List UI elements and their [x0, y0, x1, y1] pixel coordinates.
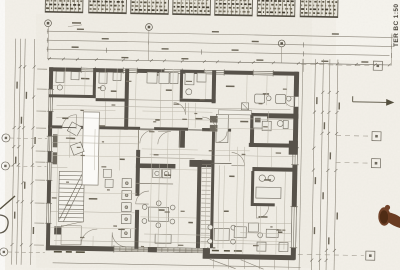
pencil stroke lower-left	[0, 196, 15, 209]
dimension number text smudges	[71, 28, 368, 62]
smudge row under bottom wall	[54, 251, 85, 253]
bath wall V x213	[212, 70, 217, 103]
furniture group	[53, 70, 292, 251]
bath wall V x180	[180, 70, 184, 99]
schedule table T5 (cut off at top)	[215, 0, 253, 16]
interior wall H1 seg d	[202, 128, 216, 131]
extra text smudges	[48, 78, 288, 250]
top dimension chain line L4 with ticks	[47, 57, 391, 66]
schedule table T3 (cut off at top)	[131, 0, 169, 14]
interior wall H2 chunk	[189, 160, 211, 167]
interior wall V x126	[124, 69, 129, 130]
interior wall H1 seg e	[216, 128, 231, 131]
left axis bubble 2	[9, 165, 46, 168]
entry door gap right wall	[294, 97, 299, 107]
interior detail thin lines	[50, 67, 294, 254]
kitchen counter thin left part	[218, 110, 251, 115]
entrance arrow	[353, 96, 394, 105]
window top 203-223	[204, 69, 224, 76]
window left y165-183	[46, 162, 53, 180]
large table rectangle	[82, 112, 99, 185]
left vertical dimension lines	[12, 39, 35, 265]
washer dryer boxes	[153, 169, 171, 178]
interior wall H y144	[249, 143, 297, 148]
right axis square bubble 3	[336, 161, 370, 164]
window left y92-114	[47, 89, 54, 111]
staircase	[54, 171, 84, 230]
leader note 2700	[72, 22, 81, 24]
closet under stair	[61, 225, 97, 245]
bottom leader diagonals	[210, 259, 264, 269]
inner dimension chains	[54, 105, 296, 244]
bottom dimension line	[53, 263, 301, 268]
interior wall H1 seg a	[48, 125, 62, 128]
door leaves	[62, 92, 295, 131]
right vertical dimension lines	[311, 59, 337, 270]
schedule table T4 (cut off at top)	[173, 0, 211, 15]
extra furniture bottom right	[248, 223, 278, 238]
thin line y158.6	[136, 157, 194, 158]
interior wall V7 x213	[210, 131, 215, 248]
bottom wall step connector	[203, 248, 210, 259]
interior wall V x182	[179, 131, 185, 148]
interior wall V5 lower	[134, 210, 139, 249]
radiators on left wall	[52, 134, 57, 164]
schedule table T1 (cut off at top)	[45, 0, 83, 13]
window top 122-136	[123, 67, 137, 74]
right axis square bubble 2	[336, 134, 370, 137]
wardrobe row upper middle room	[147, 72, 178, 84]
interior wall H1 seg b	[76, 126, 140, 130]
kitchen wall H3	[251, 113, 298, 119]
top dimension line L2	[47, 40, 393, 46]
bath wall H y100	[180, 99, 216, 103]
schedule table T6 (cut off at top)	[257, 0, 295, 17]
interior wall H y98 left	[49, 94, 96, 98]
survey point circle C	[278, 40, 285, 47]
right wall pier chunk	[289, 141, 298, 155]
dark chunk near left wall bottom	[54, 226, 61, 234]
interior wall V x93	[93, 68, 97, 98]
window right y205-246	[290, 207, 298, 248]
bottom exterior wall right section	[203, 254, 295, 261]
interior wall V8	[250, 113, 255, 147]
terrace glazing bottom-left	[114, 245, 208, 254]
interior wall V6 x200	[196, 160, 202, 248]
tilted armchairs	[67, 122, 85, 156]
thin wall line V5 top	[137, 130, 139, 150]
interior wall H y101	[96, 98, 128, 102]
interior wall V5 upper	[135, 150, 140, 196]
left exterior wall	[46, 67, 53, 250]
window top 163-181	[164, 68, 182, 75]
window right y146-163	[291, 148, 299, 165]
bath right bottom wall	[252, 203, 275, 206]
ticks on top dimension lines	[48, 29, 392, 58]
pier in bottom glazing	[148, 247, 157, 252]
room label smudges	[60, 72, 285, 233]
pencil hook mark	[0, 215, 8, 233]
misc faint interior lines 2	[50, 67, 294, 254]
bath right wall V	[251, 171, 255, 206]
extension connectors above plan	[48, 26, 392, 73]
interior wall H2-left	[136, 163, 176, 168]
smudges above bottom-right wall	[212, 250, 242, 252]
left axis bubble 1	[10, 137, 47, 140]
dimension line x301.5	[299, 59, 303, 270]
svg-text:TER BC 1:50: TER BC 1:50	[393, 4, 400, 47]
shelf line y184.5	[136, 182, 173, 185]
window top 80-94	[81, 67, 95, 74]
right exterior wall	[291, 72, 299, 260]
window left y206-226	[45, 203, 52, 223]
window top 252-272	[253, 70, 273, 77]
small side tables	[103, 169, 113, 187]
schedule table T2 (cut off at top)	[89, 0, 127, 14]
top dimension line L3	[47, 49, 390, 55]
door swing arcs	[60, 100, 271, 249]
interior wall H1 seg c	[154, 127, 188, 131]
bath right top wall	[252, 167, 293, 172]
top dimension line L1	[47, 31, 393, 37]
bottom exterior wall left section	[46, 245, 210, 253]
survey point circle B	[146, 24, 153, 31]
window left y139-154	[46, 136, 53, 151]
survey point circle A	[45, 20, 52, 27]
wall-side ticks left of building	[34, 69, 47, 245]
left axis bubble 3	[8, 251, 45, 254]
right axis square bubble 4	[298, 254, 364, 255]
schedule table T7 (cut off at top)	[300, 0, 338, 18]
thin line y101 across middle room	[129, 99, 180, 102]
top exterior wall	[49, 67, 298, 76]
ink blob stain	[378, 205, 400, 228]
corridor ladder lines	[201, 160, 211, 242]
right axis square bubble 1	[301, 64, 371, 65]
extension lines below building	[214, 259, 289, 270]
